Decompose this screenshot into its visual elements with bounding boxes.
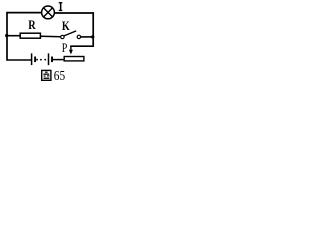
switch K right contact [77,35,80,38]
wire top-left horizontal [7,12,42,14]
lamp L1 (circle with X) [42,6,55,19]
battery cell 1 long plate [31,53,33,65]
wire switch to right rail [80,36,94,38]
switch K left contact [61,35,64,38]
wire left rail vertical [6,12,8,61]
caption glyph 图 (drawn) [42,70,51,80]
battery cell 1 short plate [34,57,36,63]
battery ellipsis dot 1 [36,59,38,61]
node junction left (rail to resistor branch) [5,34,8,37]
battery cell 2 short plate [51,57,53,63]
label I (lamp current) [59,2,63,11]
svg-text:R: R [28,18,36,32]
svg-text:65: 65 [54,69,65,84]
battery ellipsis dot 3 [44,59,46,61]
switch K blade (open) [64,31,76,36]
wire resistor branch left [7,35,20,37]
svg-text:P: P [62,41,68,55]
wire bottom-left horizontal [7,59,32,61]
wire top-right horizontal [55,12,95,14]
battery ellipsis dot 2 [40,59,42,61]
resistor R (box) [20,33,40,38]
wire resistor to switch [41,35,61,38]
battery cell 2 long plate [48,53,50,65]
wire right rail vertical [92,12,94,47]
node junction right (switch wire to rail) [91,35,94,38]
wire rail corner to wiper (horizontal) [70,45,94,47]
rheostat body (box) [64,57,84,61]
wire battery to rheostat [53,59,64,61]
rheostat wiper arrow P (head) [69,50,73,55]
svg-text:K: K [62,19,70,33]
rheostat wiper arrow P (stem) [70,46,72,51]
